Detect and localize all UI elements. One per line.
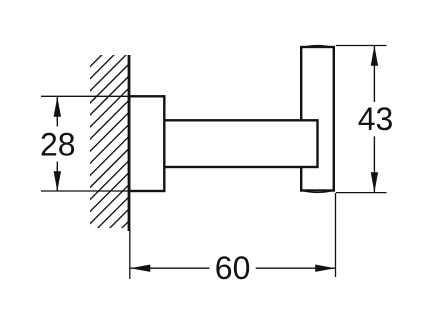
svg-text:43: 43 xyxy=(358,101,394,137)
hook arm xyxy=(164,120,317,167)
wall face line xyxy=(128,55,131,231)
end plate top cap arc xyxy=(302,46,333,48)
dimension 43 line upper segment xyxy=(373,46,375,102)
dimension 60 left extension line xyxy=(129,228,131,279)
dimension 28 upper arrowhead xyxy=(54,97,61,117)
dimension 28 line upper segment xyxy=(56,97,58,126)
dimension 60 left arrowhead xyxy=(130,265,150,272)
dimension 28 bottom extension line xyxy=(41,190,131,192)
dimension 28 line lower segment xyxy=(56,162,58,191)
dimension 28 top extension line xyxy=(41,95,131,97)
dimension 28 lower arrowhead xyxy=(54,171,61,191)
wall hatching xyxy=(85,24,133,277)
end plate body xyxy=(301,47,334,191)
dimension 43 bottom extension line xyxy=(336,192,387,194)
wall plate (flange) xyxy=(129,96,164,191)
svg-text:28: 28 xyxy=(40,126,76,162)
dimension 43 line lower segment xyxy=(373,136,375,192)
dimension 60 line right segment xyxy=(256,267,335,269)
dimension 43 lower arrowhead xyxy=(371,172,378,192)
dimension 60 right extension line xyxy=(335,193,337,277)
dimension 43 top extension line xyxy=(336,45,387,47)
dimension 60 line left segment xyxy=(131,267,210,269)
end plate bottom cap arc xyxy=(302,191,333,193)
dimension 60 right arrowhead xyxy=(315,265,335,272)
dimension 43 upper arrowhead xyxy=(371,46,378,66)
svg-text:60: 60 xyxy=(215,250,251,286)
